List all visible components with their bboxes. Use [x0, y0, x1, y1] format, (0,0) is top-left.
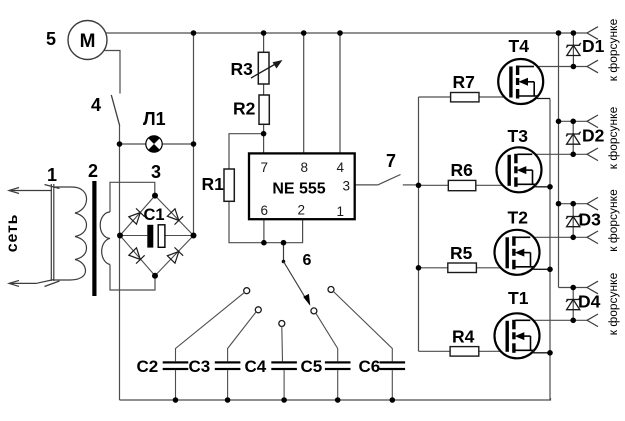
- bridge diode bottom-right: [167, 247, 183, 263]
- node rail-C5: [335, 397, 341, 403]
- diode D3: [566, 214, 581, 227]
- wire R3-R2 link: [263, 84, 265, 95]
- capacitor C3: [215, 361, 241, 400]
- capacitor C1: [120, 225, 194, 248]
- switch 6 contact k4: [279, 321, 285, 327]
- node rail-C2: [173, 397, 179, 403]
- node pin6 junction: [261, 240, 267, 246]
- svg-text:D2: D2: [582, 126, 605, 146]
- svg-text:7: 7: [261, 160, 269, 175]
- node bus-R5: [416, 265, 422, 271]
- node D4 top: [570, 285, 576, 291]
- wire diode top bus: [558, 33, 560, 288]
- resistor R7: [451, 93, 479, 102]
- bridge diode top-right: [167, 208, 183, 224]
- resistor R1: [224, 169, 234, 201]
- capacitor C4: [271, 361, 297, 400]
- svg-text:6: 6: [261, 203, 269, 218]
- node lamp left: [117, 141, 123, 147]
- chevron out2 bottom: [587, 148, 598, 161]
- svg-text:7: 7: [386, 151, 396, 171]
- svg-text:C6: C6: [359, 357, 381, 376]
- switch 6 contact k5: [311, 308, 317, 314]
- svg-text:3: 3: [151, 162, 161, 182]
- motor M: [68, 21, 107, 60]
- svg-text:R7: R7: [453, 72, 475, 92]
- wire D1 vertical: [572, 33, 574, 67]
- wire T4 drain terminal line: [519, 66, 587, 68]
- node rail-C4: [281, 397, 287, 403]
- wire pin8 lead: [303, 33, 305, 153]
- svg-text:3: 3: [343, 179, 351, 194]
- transformer primary winding: [51, 184, 86, 281]
- switch 7 blade: [378, 175, 401, 185]
- svg-text:М: М: [80, 31, 96, 52]
- svg-text:2: 2: [88, 161, 98, 181]
- resistor R5: [448, 263, 477, 273]
- svg-text:C2: C2: [137, 357, 159, 376]
- svg-text:R5: R5: [450, 243, 473, 263]
- svg-text:R3: R3: [231, 59, 254, 79]
- wire D4 vertical: [572, 288, 574, 321]
- svg-text:C3: C3: [189, 357, 211, 376]
- node bridge top: [152, 193, 158, 199]
- node D3 bottom: [570, 235, 576, 241]
- node D1 bottom: [571, 64, 577, 70]
- mains arrow top: [9, 185, 60, 194]
- wire k4 to C4: [281, 327, 284, 362]
- svg-text:R1: R1: [202, 174, 225, 194]
- wire T1 drain terminal line: [515, 319, 587, 321]
- svg-text:Л1: Л1: [143, 109, 166, 129]
- wire R1 top lead: [229, 134, 264, 169]
- node rail-C3: [225, 397, 231, 403]
- capacitor C5: [325, 361, 351, 400]
- wire R6 leads: [419, 184, 449, 186]
- wire D3 vertical: [572, 204, 574, 238]
- svg-text:4: 4: [91, 95, 101, 115]
- bridge diode bottom-left: [128, 247, 144, 263]
- svg-text:5: 5: [46, 29, 56, 49]
- node rail-C6: [390, 397, 396, 403]
- mains arrow bottom: [9, 280, 60, 287]
- node bridge bottom: [152, 273, 158, 279]
- wire plus column to bridge right vertex: [193, 33, 195, 236]
- transistor T4: [498, 59, 550, 104]
- svg-text:C4: C4: [245, 357, 267, 376]
- node rail-pin4: [337, 30, 343, 36]
- svg-text:D3: D3: [579, 210, 602, 230]
- wire source bus: [549, 99, 551, 401]
- chevron out4 bottom: [587, 314, 598, 327]
- node srcbus-T3: [547, 184, 553, 190]
- svg-text:1: 1: [337, 204, 345, 219]
- capacitor C2: [163, 361, 189, 400]
- resistor R3 (variable): [251, 52, 283, 84]
- svg-text:2: 2: [298, 203, 306, 218]
- svg-text:к форсунке: к форсунке: [606, 272, 620, 335]
- svg-text:к форсунке: к форсунке: [606, 189, 620, 252]
- wire D4 top terminal line: [559, 287, 588, 289]
- svg-text:R2: R2: [233, 99, 256, 119]
- svg-text:C1: C1: [144, 206, 165, 224]
- svg-text:T1: T1: [508, 288, 529, 308]
- svg-text:NE 555: NE 555: [272, 181, 325, 198]
- node rail-D1: [571, 30, 577, 36]
- wire pin6 lead: [263, 219, 265, 243]
- svg-text:8: 8: [301, 160, 309, 175]
- wire R7 leads: [419, 96, 451, 98]
- wire T2 drain terminal line: [515, 236, 587, 238]
- svg-text:6: 6: [303, 252, 312, 269]
- op-amp U1 NE555 box: [249, 153, 355, 219]
- svg-text:C5: C5: [301, 357, 323, 376]
- switch 6 contact k6: [328, 287, 334, 293]
- connector chevrons к форсунке: [587, 27, 598, 327]
- wire k3 to C3: [228, 312, 256, 361]
- switch 6 contact k3: [255, 307, 261, 313]
- wire R3 top lead: [263, 33, 265, 52]
- wire R1 bottom to pins 6 and 2: [229, 201, 303, 243]
- svg-text:R4: R4: [452, 327, 475, 347]
- node rail-Dbus: [556, 30, 562, 36]
- wire switch7 to gate bus: [403, 184, 419, 186]
- wire D2 top terminal line: [559, 120, 588, 122]
- wire pin3 output: [355, 184, 378, 186]
- svg-text:сеть: сеть: [4, 214, 21, 252]
- node srcbus-T1: [547, 350, 553, 356]
- node rail-R3: [261, 30, 267, 36]
- wire k6 to C6: [333, 291, 392, 361]
- node Dbus-out2: [556, 119, 562, 125]
- wire top rail: [106, 32, 587, 34]
- switch 6 contact k2: [244, 288, 250, 294]
- switch 6 wiper: [282, 243, 311, 306]
- wire R2 bottom to pin7: [263, 124, 265, 153]
- wire D3 top terminal line: [559, 203, 588, 205]
- wire lamp line: [120, 143, 194, 145]
- node srcbus-T2: [547, 267, 553, 273]
- transformer core: [92, 181, 96, 296]
- bridge diode top-left: [128, 208, 144, 224]
- transformer secondary winding: [100, 212, 110, 265]
- wire D2 vertical: [572, 121, 574, 154]
- node rail-bridge+: [191, 30, 197, 36]
- svg-text:к форсунке: к форсунке: [606, 106, 620, 169]
- wire k5 to C5: [316, 313, 338, 361]
- wire R4 leads: [419, 350, 451, 352]
- lamp L1: [146, 136, 162, 152]
- chevron out1 top: [587, 27, 598, 40]
- diode D4: [566, 297, 581, 310]
- capacitor C6: [380, 361, 406, 400]
- svg-text:T3: T3: [508, 126, 529, 146]
- wire R5 leads: [419, 267, 448, 269]
- wire k2 to C2: [176, 293, 245, 362]
- svg-text:4: 4: [337, 160, 345, 175]
- resistor R6: [448, 180, 476, 190]
- transistor T1: [495, 313, 551, 358]
- svg-text:T4: T4: [509, 36, 530, 56]
- chevron out3 top: [587, 197, 598, 210]
- chevron out4 top: [587, 281, 598, 294]
- resistor R2: [259, 95, 269, 124]
- transistor T2: [495, 230, 551, 275]
- switch 4 blade: [111, 95, 119, 126]
- chevron out3 bottom: [587, 231, 598, 244]
- wire secondary bottom lead: [110, 265, 155, 291]
- svg-text:T2: T2: [508, 208, 529, 228]
- node bridge left: [117, 233, 123, 239]
- svg-text:1: 1: [47, 165, 57, 185]
- resistor R4: [450, 347, 479, 357]
- diode D1: [566, 43, 581, 56]
- node lamp right: [191, 141, 197, 147]
- node bridge right: [191, 233, 197, 239]
- node D3 top: [570, 201, 576, 207]
- chevron out1 bottom: [587, 60, 598, 73]
- wire motor bottom lead: [105, 51, 121, 94]
- diode D2: [566, 132, 581, 145]
- node Dbus-out3: [556, 201, 562, 207]
- chevron out2 top: [587, 115, 598, 128]
- node wiper junction: [281, 240, 287, 246]
- wire bottom rail: [120, 398, 551, 400]
- wire secondary top lead: [110, 182, 155, 212]
- node D4 bottom: [570, 318, 576, 324]
- node bus-R6: [416, 183, 422, 189]
- node D2 top: [570, 119, 576, 125]
- bridge rectifier diamond: [120, 196, 194, 276]
- node D2 bottom: [570, 152, 576, 158]
- svg-text:R6: R6: [451, 160, 474, 180]
- wire pin4 lead: [339, 33, 341, 153]
- transistor T3: [497, 147, 551, 192]
- node rail-pin8: [301, 30, 307, 36]
- svg-text:D4: D4: [578, 292, 601, 312]
- svg-text:D1: D1: [582, 36, 605, 56]
- node R1-R2: [261, 131, 267, 137]
- wire T3 drain terminal line: [517, 153, 587, 155]
- wire switch4 to bottom rail left vertical: [119, 126, 121, 401]
- wire gate bus vertical: [418, 97, 420, 351]
- svg-text:к форсунке: к форсунке: [606, 18, 620, 81]
